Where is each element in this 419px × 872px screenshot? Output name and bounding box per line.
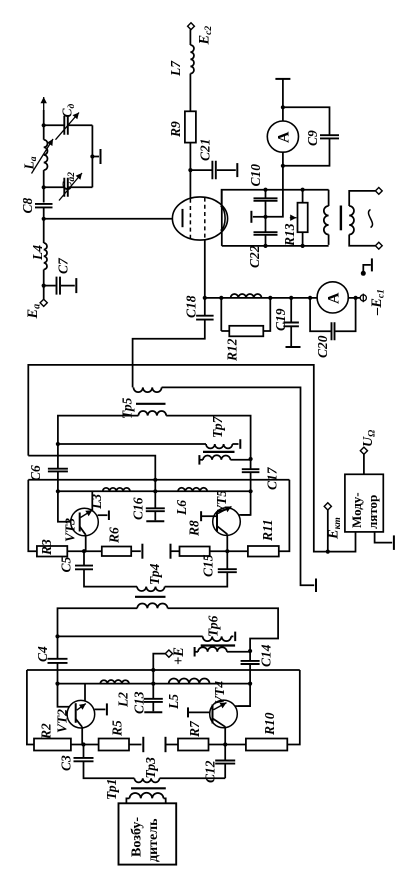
capacitor Ca2 (64, 178, 68, 197)
node bus670 tap (151, 668, 155, 672)
wire C4 chain bottom (57, 663, 59, 684)
node R13 top (301, 188, 305, 192)
node Tp6 w1 left (55, 634, 59, 638)
svg-text:R7: R7 (187, 720, 202, 738)
capacitor C20 (332, 322, 335, 340)
resistor R2 (34, 739, 71, 751)
wire secondary top lead (349, 191, 375, 206)
resistor R13 (298, 203, 308, 233)
wire ground to meter (282, 79, 284, 107)
wire R7 to node (209, 744, 226, 746)
wire Tp1 stub left (126, 798, 129, 803)
AC tilde symbol (368, 210, 372, 228)
wire VT3 collector lead (91, 491, 93, 510)
node VT4 emitter (223, 742, 227, 746)
wire C14 top (249, 651, 251, 661)
wire Tp3 w1 right lead (160, 777, 226, 779)
terminal output top (375, 188, 382, 195)
svg-text:Тр4: Тр4 (147, 563, 162, 585)
terminal bar Tp6 w1 (234, 632, 236, 642)
wire C17 bottom (241, 472, 251, 515)
wire C14 bottom (238, 664, 250, 706)
wire C17 top (250, 459, 252, 469)
wire R12 lead left (221, 330, 229, 332)
wire L7 to R9 (189, 74, 191, 112)
capacitor C15 (218, 569, 237, 572)
VT4 emitter (213, 718, 226, 726)
resistor R5 (99, 739, 129, 751)
wire C10-C22 mid (265, 201, 267, 232)
svg-text:L5: L5 (166, 694, 181, 710)
transformer core (340, 206, 342, 231)
wire R12 lead right (263, 298, 270, 331)
terminal +E (165, 650, 172, 657)
wire stage1 L-line (58, 683, 251, 685)
wire VT2 base lead (58, 684, 76, 707)
svg-text:Тр1: Тр1 (104, 779, 119, 800)
terminal bar VT3 right (108, 511, 110, 521)
ground modulator (393, 535, 395, 550)
node C20 left (308, 296, 312, 300)
wire R9 to grid (189, 143, 191, 199)
node grid line left (203, 296, 207, 300)
wire C7 branch (44, 285, 56, 287)
terminal Ea (40, 299, 47, 306)
wire anode line (44, 218, 183, 220)
terminal Ec2 (188, 23, 195, 30)
wire Ca branch (44, 186, 64, 188)
resistor R10 (246, 739, 287, 751)
svg-text:VT3: VT3 (63, 518, 78, 542)
wire R3 to node (67, 550, 84, 552)
svg-text:С10: С10 (248, 164, 263, 187)
wire C19 to ground (290, 326, 292, 346)
VT5 base bar (216, 512, 218, 531)
resistor R7 (178, 739, 209, 751)
wire tank rect left (221, 190, 223, 246)
wire Tp4 w2 right lead (168, 608, 279, 651)
node L-line center tap (153, 489, 157, 493)
svg-text:А: А (276, 131, 293, 143)
node VT2 emitter (81, 742, 85, 746)
svg-text:С18: С18 (184, 295, 199, 318)
transistor VT5 (213, 508, 241, 536)
node L-line1 right (248, 682, 252, 686)
tube screen grid (dashed) (189, 199, 191, 239)
ground Tp5 w1 (315, 579, 317, 593)
node La-Ca junction (42, 185, 46, 189)
resistor R8 (180, 547, 210, 557)
terminal output bottom (375, 242, 382, 249)
ground C7 (75, 278, 77, 293)
ground R8 (170, 544, 172, 559)
wire R5 to ground (129, 744, 142, 746)
node VT3 emitter (82, 549, 86, 553)
wire stage2 L-line (58, 490, 251, 492)
terminal bar VT4 base (187, 707, 189, 717)
svg-text:L3: L3 (89, 494, 104, 510)
wire tank right rail (91, 125, 93, 187)
svg-text:VT2: VT2 (55, 709, 70, 733)
svg-text:С12: С12 (203, 760, 218, 783)
svg-text:L6: L6 (174, 500, 189, 516)
svg-text:С9: С9 (305, 130, 320, 146)
capacitor C22 (254, 232, 278, 235)
modulator box (345, 474, 383, 532)
wire VT4 emitter lead (224, 727, 226, 745)
tube cathode arc (221, 206, 226, 231)
vacuum tube U1 envelope (172, 197, 227, 240)
node anode line junction (42, 217, 46, 221)
wire Ec2 to L7 (189, 30, 191, 46)
VT5 collector arrow (218, 507, 232, 514)
transformer Tp6 winding1 (203, 636, 231, 641)
terminal bar Tp7 w2 (198, 455, 200, 465)
node Tp6-C14 junction (248, 649, 252, 653)
wire VT2 base stub right (95, 708, 106, 710)
node L-line left (56, 489, 60, 493)
transistor VT2 (67, 700, 95, 728)
ground meter A1 (275, 78, 290, 80)
wire Tp1 stub right (164, 798, 166, 803)
node C7 junction (42, 284, 46, 288)
wire VT5 base lead (201, 515, 217, 517)
wire R6 to ground (131, 550, 141, 552)
ground C19 (286, 346, 301, 348)
wire R10 right leg (287, 670, 300, 745)
wire C20 bridge right (335, 298, 355, 331)
output transformer primary (324, 206, 329, 235)
wire VT3 base lead (58, 491, 80, 522)
wire node to R5 (84, 744, 99, 746)
node R12 left (219, 296, 223, 300)
wire C20 bridge left (310, 298, 331, 331)
exciter box (119, 803, 177, 864)
wire Tp4 w2 left lead (58, 608, 138, 636)
terminal bar VT2 right (106, 703, 108, 715)
ground C13 (144, 711, 162, 713)
wire L4 top lead (43, 219, 45, 243)
transistor VT4 (210, 700, 238, 728)
VT4 base bar (212, 705, 214, 724)
terminal bar Tp7 w1 (239, 439, 241, 449)
capacitor C12 (215, 761, 235, 764)
wire C6 chain bottom (57, 471, 59, 491)
wire Tp7 w2 left lead (199, 459, 203, 461)
svg-text:R2: R2 (39, 723, 54, 740)
svg-text:R9: R9 (168, 121, 183, 138)
transformer Tp7 core (203, 451, 235, 453)
wire Tp6 w2 right lead (227, 651, 250, 653)
svg-text:С13: С13 (132, 691, 147, 714)
wire node to R10 (225, 744, 246, 746)
wire meter vertical (266, 107, 283, 217)
terminal Ekt (324, 503, 331, 510)
wire VT5 emitter lead (226, 534, 228, 551)
svg-text:Возбу-: Возбу- (130, 817, 145, 857)
VT3 base bar (79, 513, 81, 532)
wire Tp4 w1 right lead (165, 572, 228, 586)
svg-text:L2: L2 (116, 692, 131, 708)
svg-text:R5: R5 (110, 720, 125, 737)
node L-line1 center tap (151, 682, 155, 686)
wire grid bias line (205, 297, 363, 299)
terminal bar Tp6 w2 (194, 647, 196, 657)
resistor R9 (185, 111, 196, 142)
wire primary bottom (328, 235, 330, 245)
ground C21 (236, 163, 238, 177)
wire Tp7 w1 left lead (58, 443, 206, 445)
wire divider ground stub (253, 216, 266, 218)
resistor R3 (37, 546, 67, 557)
wire Tp6 w1 left lead (58, 635, 203, 637)
wire R13 stub bottom (302, 232, 304, 246)
resistor R11 (248, 546, 279, 557)
wire R7 left lead (166, 744, 179, 746)
ammeter A2 (317, 282, 348, 313)
svg-text:С3: С3 (59, 755, 74, 771)
capacitor C16 (146, 508, 165, 511)
svg-text:VT5: VT5 (214, 490, 229, 514)
svg-text:С21: С21 (198, 138, 213, 161)
wire C21 lead (190, 169, 211, 171)
svg-text:С5: С5 (59, 556, 74, 572)
wire C18 to Tp5 (133, 320, 205, 388)
transformer Tp6 core (201, 644, 235, 646)
ground near -Ec1 (371, 258, 373, 271)
wire C19 stub (290, 298, 292, 323)
node L-line1 left (55, 682, 59, 686)
terminal bar VT5 base (200, 511, 202, 521)
capacitor C7 (57, 277, 61, 295)
svg-text:VT4: VT4 (212, 681, 227, 705)
variable arrow R13 (290, 217, 297, 219)
wire inductor La top (43, 125, 45, 139)
inductor L5 (169, 678, 210, 683)
tube control grid (dashed) (204, 198, 206, 240)
svg-text:С6: С6 (28, 465, 43, 481)
ground R5 (142, 737, 144, 752)
capacitor C14 (241, 661, 260, 664)
terminal -Ec1 (360, 295, 366, 301)
resistor R12 (229, 326, 263, 337)
ground R7 (165, 737, 167, 752)
terminal U-omega (360, 447, 367, 454)
wire bus670 (+E bias bus) (27, 669, 300, 671)
transformer Tp4 core (135, 596, 166, 598)
node Ekt junction (326, 550, 330, 554)
wire Ci to right rail (69, 124, 93, 126)
node meter bottom (281, 164, 285, 168)
wire C18 top (204, 298, 206, 316)
wire VT5 collector lead (239, 514, 250, 516)
wire VT3 base stub right (98, 514, 108, 516)
transformer Tp4 winding2 (137, 603, 167, 608)
wire inductor La bottom (43, 170, 45, 187)
transformer Tp1 winding (130, 793, 164, 799)
svg-text:Тр7: Тр7 (210, 415, 225, 438)
ammeter A1 (267, 121, 298, 152)
node meter top (281, 105, 285, 109)
node capacitive divider midpoint (263, 215, 267, 219)
svg-text:L7: L7 (168, 60, 183, 77)
capacitor C5 (75, 566, 93, 570)
wire Tp6 w1 right lead (231, 635, 233, 637)
variable arrow Ci (56, 113, 80, 140)
wire Tp5 w1 right lead (162, 387, 315, 585)
wire C9 loop (283, 107, 330, 135)
wire Tp7 w2 right lead (230, 459, 250, 461)
wire antenna stub (43, 110, 45, 125)
wire bus3 right leg to R11 (279, 480, 290, 551)
wire R2 to node (71, 744, 84, 746)
wire bus670 left leg to R2 (27, 670, 34, 745)
svg-text:лятор: лятор (365, 495, 380, 529)
ground C16 (146, 520, 164, 522)
wire VT4 base lead (188, 711, 213, 713)
VT2 collector arrow (77, 704, 86, 711)
node tank ground junction (90, 154, 94, 158)
VT2 base bar (75, 703, 77, 723)
VT3 emitter (80, 527, 86, 535)
wire C5 top (83, 551, 85, 565)
node C10 top (263, 188, 267, 192)
capacitor C4 (48, 659, 68, 663)
capacitor C9 (320, 135, 339, 138)
wire C5 to Tp4 (84, 569, 137, 586)
wire secondary bottom lead (349, 235, 375, 246)
wire VT3 emitter lead (84, 535, 86, 551)
VT4 collector arrow (214, 703, 227, 710)
transformer Tp6 winding2 (198, 647, 227, 652)
wire node to R11 (227, 550, 248, 552)
node C20 right (354, 296, 358, 300)
wire C9 loop bottom (283, 138, 330, 165)
capacitor C18 (196, 316, 214, 320)
wire C16 to ground (154, 511, 156, 520)
antenna arrow (43, 97, 45, 116)
output transformer secondary (349, 206, 354, 235)
inductor L6 (178, 488, 207, 491)
capacitor C10 (254, 198, 278, 201)
wire R8 left lead (171, 550, 180, 552)
svg-text:С22: С22 (247, 245, 262, 268)
transformer Tp5 winding2 (138, 411, 166, 416)
wire R8 to node (210, 550, 228, 552)
svg-text:С19: С19 (273, 308, 288, 331)
node VT5 emitter (225, 549, 229, 553)
svg-text:С8: С8 (20, 197, 35, 213)
capacitor C3 (74, 758, 94, 761)
wire C10 stub top (265, 190, 267, 198)
transformer Tp3 winding1 (134, 778, 159, 782)
transistor VT3 (71, 508, 99, 536)
wire tank rect bottom (222, 245, 329, 247)
transformer Tp7 winding2 (203, 455, 230, 460)
inductor La (44, 140, 48, 170)
wire C8 top lead (43, 187, 45, 202)
wire Ea lead (43, 286, 45, 300)
wire C13 to ground (152, 702, 154, 711)
wire Ca to right rail (69, 186, 93, 188)
wire U-omega lead (363, 454, 365, 474)
variable arrow La (32, 139, 54, 174)
wire tank ground stub (92, 156, 99, 158)
svg-text:R12: R12 (225, 338, 240, 362)
wire C6 chain top (57, 444, 59, 469)
capacitor Ci (64, 116, 68, 135)
wire grid lead (204, 240, 206, 298)
tube anode bar (182, 209, 184, 227)
capacitor C19 (283, 323, 299, 327)
svg-text:R13: R13 (282, 223, 297, 247)
transformer Tp5 core (136, 403, 166, 405)
svg-text:С20: С20 (315, 335, 330, 358)
node R13 bottom (301, 244, 305, 248)
svg-text:С14: С14 (259, 644, 274, 667)
node C19 (289, 296, 293, 300)
resistor R6 (102, 547, 131, 557)
wire C22 stub bottom (265, 235, 267, 246)
capacitor C21 (212, 161, 215, 180)
svg-text:Моду-: Моду- (349, 492, 364, 528)
wire modulator ground stub (375, 532, 393, 543)
svg-text:Тр6: Тр6 (206, 615, 221, 637)
ground divider (250, 211, 252, 223)
wire C21 to ground (217, 169, 236, 171)
wire bus3 left leg to R3 (28, 480, 37, 551)
wire C7 to ground (61, 285, 75, 287)
wire Tp6 w2 left lead (195, 651, 198, 653)
node Tp7 w1 left (56, 442, 60, 446)
svg-text:С4: С4 (35, 646, 50, 662)
wire C3 top (83, 745, 85, 758)
inductor L3 (103, 488, 130, 491)
wire C12 bottom (224, 764, 226, 779)
wire C12 top (224, 745, 226, 761)
svg-text:+Е: +Е (171, 647, 187, 665)
svg-text:R3: R3 (39, 539, 54, 556)
VT5 emitter (217, 526, 227, 534)
wire R12 left stub (220, 298, 222, 331)
svg-text:С16: С16 (131, 497, 146, 520)
transformer Tp5 winding1 (134, 387, 162, 392)
inductor L4 (44, 243, 47, 270)
capacitor C8 (35, 204, 53, 208)
node Tp7-C17 junction (249, 457, 253, 461)
wire node to R6 (84, 550, 102, 552)
svg-text:L4: L4 (30, 245, 45, 261)
VT3 collector arrow (81, 510, 93, 517)
wire bus1 (modulated supply) (28, 365, 355, 552)
wire cathode lead (222, 190, 329, 206)
svg-text:R11: R11 (260, 519, 275, 542)
floating ground dot (361, 271, 366, 276)
node C22 bottom (263, 244, 267, 248)
variable arrow Ca2 (59, 173, 82, 201)
wire C3 to Tp3 (84, 761, 135, 778)
wire C15 top (226, 551, 228, 569)
wire Tp7 w1 right lead (232, 443, 238, 445)
capacitor C13 (144, 699, 163, 702)
grid choke (231, 294, 262, 298)
transformer Tp1 core (131, 787, 166, 789)
capacitor C17 (242, 469, 260, 472)
wire Tp5 w2 right lead (166, 416, 250, 459)
node C21 junction (188, 168, 192, 172)
wire L4 bottom lead (43, 270, 45, 286)
wire Ci branch (44, 124, 64, 126)
